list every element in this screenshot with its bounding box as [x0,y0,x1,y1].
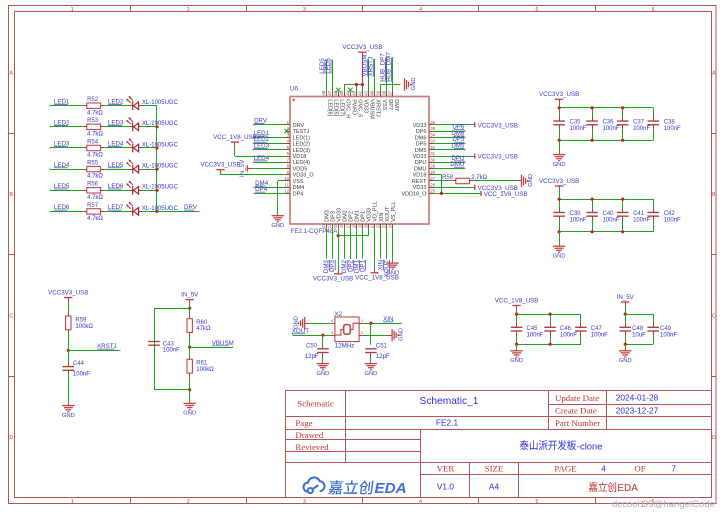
wire [434,174,442,176]
svg-text:29: 29 [430,164,435,169]
svg-text:2: 2 [361,331,363,335]
svg-text:VCC_1V8_USB: VCC_1V8_USB [484,191,528,198]
svg-text:LED(2): LED(2) [293,142,311,148]
svg-text:GND: GND [619,358,632,364]
wire [142,105,157,107]
node XIN [378,260,385,270]
wire [434,131,465,133]
svg-text:C42: C42 [664,211,676,217]
no-connect [336,88,340,92]
svg-text:X2: X2 [335,311,343,318]
svg-text:TESTJ: TESTJ [293,129,310,135]
svg-text:@hangelCode: @hangelCode [654,499,715,510]
svg-text:C46: C46 [560,326,572,332]
svg-text:Create Date: Create Date [555,406,597,416]
node DM2 [341,259,348,273]
capacitor C42 [653,199,655,208]
svg-text:VD33: VD33 [413,185,427,191]
svg-text:2: 2 [187,499,190,505]
svg-text:100nF: 100nF [664,217,681,223]
wire [559,190,561,199]
svg-text:DMU: DMU [414,167,427,173]
wire [326,60,328,92]
junction [621,230,624,233]
svg-text:100nF: 100nF [570,126,587,132]
svg-text:C37: C37 [633,120,645,126]
wire [234,146,236,156]
junction [549,313,552,316]
node HUB_DP7 [379,53,386,82]
wire [253,137,285,139]
wire [386,58,388,92]
svg-text:1: 1 [71,499,74,505]
svg-text:dccool1: dccool1 [612,499,645,510]
U6 pins [285,124,290,126]
junction [440,192,443,195]
crystal X2 12MHz [335,317,359,342]
wire [142,211,157,213]
wire [104,169,129,171]
wire [332,60,334,92]
capacitor C43 [148,341,160,343]
svg-text:GND: GND [386,270,399,276]
ground [521,175,523,187]
wire [392,58,394,92]
LED LED4 (XL-1005UGC) [129,169,133,171]
svg-text:4.7kΩ: 4.7kΩ [87,216,103,222]
junction [624,343,627,346]
svg-text:100nF: 100nF [163,348,180,354]
svg-text:XL-1005UGC: XL-1005UGC [142,206,179,212]
svg-text:DM5: DM5 [415,148,427,154]
wire [104,147,129,149]
wire [356,228,358,258]
svg-text:C47: C47 [591,326,603,332]
svg-text:GND: GND [399,328,405,341]
wire [189,304,191,309]
svg-text:Schematic_1: Schematic_1 [420,396,479,407]
svg-text:VCC3V3_USB: VCC3V3_USB [539,91,579,98]
wire [104,211,129,213]
svg-text:PWRJ: PWRJ [351,99,357,115]
svg-text:34: 34 [430,132,435,137]
svg-text:XOUT: XOUT [385,206,391,222]
wire [50,147,83,149]
svg-text:10uF: 10uF [632,332,646,338]
capacitor C38 [653,108,655,117]
wire [386,228,388,258]
svg-text:SIZE: SIZE [485,464,504,474]
svg-text:C48: C48 [632,326,644,332]
node DM1 [353,259,360,273]
junction [188,307,191,310]
svg-text:Schematic: Schematic [297,399,334,409]
power flag VCC_1V8_USB [374,268,376,272]
svg-text:EDA: EDA [375,480,407,497]
logo 嘉立创EDA [304,477,325,493]
svg-text:VCC_1V8_USB: VCC_1V8_USB [213,134,257,141]
junction [558,230,561,233]
svg-text:4: 4 [601,463,606,473]
svg-text:GND: GND [364,371,377,377]
ground [277,214,279,216]
wire [434,143,465,145]
svg-text:4: 4 [331,319,333,323]
svg-text:48: 48 [321,90,326,95]
svg-text:1: 1 [361,319,363,323]
wire [559,232,561,245]
svg-text:100nF: 100nF [603,126,620,132]
company 嘉立创EDA [589,482,598,492]
svg-text:23: 23 [382,223,387,228]
svg-text:R59: R59 [75,318,87,324]
svg-text:5: 5 [536,499,539,505]
junction [155,189,158,192]
svg-text:33: 33 [430,139,435,144]
capacitor C41 [622,199,624,208]
wire [559,104,561,108]
LED LED3 (XL-1005UGC) [129,147,133,149]
svg-text:100kΩ: 100kΩ [196,367,214,373]
svg-text:VS_PLL: VS_PLL [391,202,397,222]
no-connect [348,88,352,92]
svg-text:R52: R52 [87,97,99,103]
title block grid [286,391,712,498]
svg-text:GND: GND [183,411,196,417]
wire [154,389,190,391]
svg-text:A: A [10,71,14,77]
svg-text:35: 35 [430,126,435,131]
wire [434,124,474,126]
junction [67,349,70,352]
svg-text:14: 14 [327,223,332,228]
wire [293,335,332,337]
title 泰山派开发板-clone [520,440,529,450]
wire [253,149,285,151]
svg-text:FE2.1: FE2.1 [436,418,459,428]
resistor R52 [87,103,101,108]
svg-text:12pF: 12pF [376,354,390,360]
wire [559,140,561,153]
wire [362,228,364,258]
resistor R55 [87,166,101,171]
svg-text:VCC3V3_USB: VCC3V3_USB [478,122,518,129]
wire bus top [517,314,581,316]
svg-text:VCC3V3_USB: VCC3V3_USB [342,44,382,51]
svg-text:43: 43 [351,90,356,95]
power flag IN_5V [246,165,248,172]
svg-text:13: 13 [321,223,326,228]
svg-text:C39: C39 [570,211,582,217]
capacitor C50 [322,335,324,345]
svg-text:C41: C41 [633,211,645,217]
svg-text:100nF: 100nF [660,332,677,338]
resistor R57 [87,209,101,214]
svg-text:Page: Page [295,418,312,428]
resistor R59 [66,316,71,330]
svg-text:4.7kΩ: 4.7kΩ [87,131,103,137]
svg-text:VSS: VSS [293,179,304,185]
svg-text:7: 7 [671,463,676,473]
wire [434,137,465,139]
op-amp U6 body (FE2.1-CQFP48A) [290,97,429,225]
wire [189,377,191,390]
junction [558,198,561,201]
wire [434,162,465,164]
junction [515,343,518,346]
svg-text:C36: C36 [603,120,615,126]
svg-text:C: C [9,313,13,319]
wire [220,173,222,176]
svg-text:VDD18_O: VDD18_O [401,191,427,197]
svg-text:VCC3V3_USB: VCC3V3_USB [539,178,579,185]
svg-text:LED(4): LED(4) [293,160,311,166]
wire [368,59,370,91]
wire [434,193,480,195]
svg-text:39: 39 [376,90,381,95]
svg-text:DP7: DP7 [387,99,393,110]
LED LED1 (XL-1005UGC) [129,105,133,107]
svg-text:DP6: DP6 [416,129,427,135]
ground [370,362,372,364]
svg-text:VD33: VD33 [363,99,369,113]
svg-text:C40: C40 [603,211,615,217]
capacitor C44 [68,350,70,362]
wire [338,228,340,269]
wire [516,344,518,349]
svg-text:VCC3V3_USB: VCC3V3_USB [313,276,353,283]
capacitor C45 [516,314,518,323]
frame coordinate markers [130,6,132,12]
junction [337,234,340,237]
svg-text:IN_5V: IN_5V [181,291,199,298]
junction [621,139,624,142]
svg-text:XRSTJ: XRSTJ [375,99,381,117]
wire [253,168,285,170]
node LED5 [319,58,326,74]
wire [338,235,368,237]
wire [253,162,285,164]
svg-text:C38: C38 [664,120,676,126]
svg-text:10: 10 [284,176,289,181]
svg-text:VD33: VD33 [413,123,427,129]
svg-text:LED[7]: LED[7] [338,99,344,116]
svg-text:LED(1): LED(1) [293,135,311,141]
wire [104,190,129,192]
svg-text:VDD5: VDD5 [293,167,308,173]
svg-text:100nF: 100nF [603,217,620,223]
LED LED2 (XL-1005UGC) [129,126,133,128]
power flag VCC_1V8_USB [480,193,482,195]
junction [155,146,158,149]
wire [473,180,517,182]
svg-text:15: 15 [333,223,338,228]
svg-text:GND: GND [62,413,75,419]
node DP2 [347,259,354,272]
svg-text:12: 12 [284,189,289,194]
junction [591,198,594,201]
wire [154,308,190,310]
wire [392,228,394,261]
junction [624,313,627,316]
junction [369,322,372,325]
svg-text:DM2: DM2 [342,210,348,222]
no-connect TESTJ [284,129,288,133]
svg-text:GND: GND [271,223,284,229]
svg-text:C44: C44 [73,361,85,367]
svg-text:2024-01-28: 2024-01-28 [616,393,659,403]
svg-text:D: D [712,435,716,441]
svg-text:100nF: 100nF [527,332,544,338]
wire [344,85,346,92]
node DM3 [323,259,330,273]
svg-text:26: 26 [430,182,435,187]
svg-text:VD_PLL: VD_PLL [373,201,379,222]
svg-text:100nF: 100nF [73,372,90,378]
wire [142,190,157,192]
svg-text:Part Number: Part Number [555,418,600,428]
svg-text:C45: C45 [527,326,539,332]
capacitor C51 [365,348,377,350]
svg-text:100nF: 100nF [633,126,650,132]
svg-text:24: 24 [388,223,393,228]
svg-text:EDA: EDA [617,483,638,494]
svg-text:IN_5V: IN_5V [617,294,635,301]
svg-text:VD18: VD18 [413,173,427,179]
resistor R54 [87,145,101,150]
wire [516,310,518,314]
svg-text:GND: GND [411,77,417,90]
svg-text:3: 3 [303,7,306,13]
wire [104,126,129,128]
svg-text:REXT: REXT [412,179,427,185]
node DP3 [329,259,336,272]
svg-text:VSS: VSS [381,99,387,110]
svg-text:LED[5]: LED[5] [332,99,338,116]
ground [404,78,406,90]
capacitor C40 [592,199,594,208]
wire [374,59,376,91]
wire bus top [559,107,653,109]
wire bus top [559,199,653,201]
junction [621,106,624,109]
junction [621,198,624,201]
svg-text:VD18: VD18 [293,154,307,160]
wire [50,169,83,171]
svg-text:VD33: VD33 [413,154,427,160]
svg-text:C49: C49 [660,326,672,332]
wire bus bottom [559,231,653,233]
svg-text:A4: A4 [489,482,500,492]
capacitor C36 [592,108,594,117]
node DP1 [359,259,366,272]
junction [549,343,552,346]
svg-text:38: 38 [382,90,387,95]
junction [591,106,594,109]
wire [50,190,83,192]
wire [142,126,157,128]
svg-text:XL-1005UGC: XL-1005UGC [142,185,179,191]
svg-text:DP2: DP2 [349,211,355,222]
svg-text:C50: C50 [306,343,318,349]
svg-text:OF: OF [634,464,645,474]
node XOUT [384,260,391,277]
svg-text:5: 5 [536,7,539,13]
junction [321,334,324,337]
svg-text:2023-12-27: 2023-12-27 [616,405,659,415]
svg-text:DRV: DRV [293,123,305,129]
power flag VCC3V3_USB [473,187,475,189]
svg-text:U6: U6 [290,85,299,92]
junction [591,139,594,142]
svg-text:VBUSM: VBUSM [369,99,375,119]
capacitor C49 [653,314,655,323]
svg-text:31: 31 [430,151,435,156]
svg-text:41: 41 [364,90,369,95]
wire [68,333,70,350]
junction [361,83,364,86]
svg-text:GND: GND [553,253,566,259]
resistor R56 [87,188,101,193]
wire [350,228,352,258]
svg-text:18: 18 [351,223,356,228]
wire [254,187,285,189]
LED LED5 (XL-1005UGC) [129,190,133,192]
ground [189,402,191,404]
ground [559,153,561,155]
svg-text:C51: C51 [376,343,388,349]
svg-text:OVC_H: OVC_H [344,99,350,118]
resistor R53 [87,124,101,129]
svg-text:16: 16 [339,223,344,228]
wire [380,228,382,258]
svg-text:DPU: DPU [415,160,427,166]
wire bus top [625,314,653,316]
capacitor C46 [550,314,552,323]
svg-text:12MHz: 12MHz [335,342,355,349]
wire [104,105,129,107]
svg-text:30: 30 [430,157,435,162]
resistor R60 [189,308,191,315]
power flag VCC3V3_USB [473,156,475,158]
wire bus bottom [517,344,581,346]
svg-text:4: 4 [419,499,422,505]
svg-text:R57: R57 [87,203,99,209]
svg-text:C: C [712,313,716,319]
wire [278,180,285,182]
svg-text:47kΩ: 47kΩ [196,326,211,332]
svg-text:R56: R56 [87,182,99,188]
ground [516,349,518,351]
wire [253,143,285,145]
junction [591,230,594,233]
capacitor C35 [559,108,561,117]
resistor R61 [189,347,191,356]
ground [322,362,324,364]
wire [308,323,331,325]
svg-text:Drawed: Drawed [295,430,323,440]
svg-text:37: 37 [388,90,393,95]
svg-text:B: B [10,192,14,198]
svg-text:2: 2 [187,7,190,13]
svg-text:DP4: DP4 [293,191,304,197]
svg-text:VCC_1V8_USB: VCC_1V8_USB [495,297,539,304]
svg-text:47: 47 [327,90,332,95]
svg-text:21: 21 [370,223,375,228]
svg-text:40: 40 [370,90,375,95]
wire [344,228,346,258]
svg-text:LED(3): LED(3) [293,148,311,154]
